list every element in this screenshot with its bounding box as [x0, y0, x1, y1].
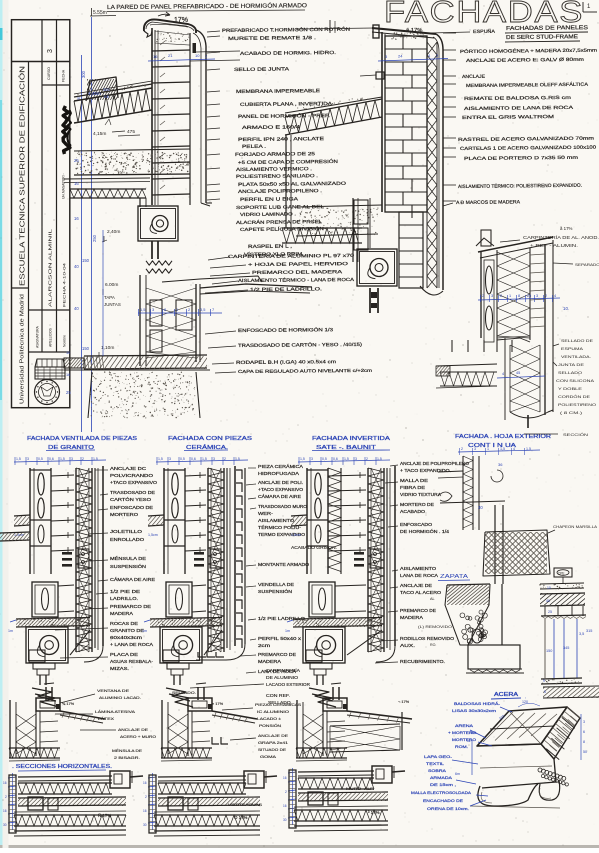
svg-text:SOBRA: SOBRA	[428, 768, 446, 773]
svg-text:3: 3	[536, 294, 538, 298]
svg-text:ANCLAJE POLIPROPILENO .: ANCLAJE POLIPROPILENO .	[238, 188, 322, 194]
svg-text:SELLADO DE: SELLADO DE	[561, 338, 593, 343]
svg-text:SELLADO: SELLADO	[558, 370, 582, 375]
svg-text:25: 25	[66, 390, 71, 395]
svg-text:MALLA ELECTROSOLDADA: MALLA ELECTROSOLDADA	[411, 790, 471, 795]
svg-text:+ REF - ALUMIN.: + REF - ALUMIN.	[530, 243, 578, 248]
svg-text:+5 CM DE CAPA DE COMPRESIÓN: +5 CM DE CAPA DE COMPRESIÓN	[238, 158, 338, 165]
svg-text:SUSPENSIÓN: SUSPENSIÓN	[258, 589, 292, 594]
svg-text:1,5: 1,5	[93, 457, 98, 461]
svg-text:FACHADA . HOJA EXTERIOR: FACHADA . HOJA EXTERIOR	[455, 434, 551, 440]
svg-text:10: 10	[195, 53, 200, 58]
svg-text:ACABADO: ACABADO	[400, 509, 426, 514]
svg-text:LANA DE ROCA: LANA DE ROCA	[400, 573, 438, 578]
svg-text:MÉNSULA DE: MÉNSULA DE	[112, 748, 142, 753]
svg-text:CARPINTERÍA: CARPINTERÍA	[266, 668, 300, 673]
svg-text:VENTILADA.: VENTILADA.	[561, 354, 591, 359]
svg-text:GRAPA 2x41: GRAPA 2x41	[258, 740, 288, 745]
svg-text:CPE: CPE	[558, 572, 565, 576]
svg-text:ENFOSCADO DE HORMIGÓN 1/3: ENFOSCADO DE HORMIGÓN 1/3	[238, 326, 334, 333]
svg-text:ARMADA: ARMADA	[430, 775, 452, 780]
svg-text:Y DOBLE: Y DOBLE	[558, 386, 582, 391]
svg-text:40: 40	[74, 264, 79, 269]
svg-text:+ HOJA DE PAPEL HERVIDO: + HOJA DE PAPEL HERVIDO	[248, 261, 349, 267]
svg-text:2: 2	[366, 457, 368, 461]
svg-text:16: 16	[283, 804, 287, 808]
svg-text:BALDOSAS HIDRÁ-: BALDOSAS HIDRÁ-	[454, 701, 501, 706]
svg-text:ENTRA EL GRIS WALTROM: ENTRA EL GRIS WALTROM	[462, 114, 554, 120]
svg-text:0,6: 0,6	[333, 457, 338, 461]
svg-text:475: 475	[127, 129, 135, 135]
svg-text:DE ALUMINIO: DE ALUMINIO	[266, 675, 299, 680]
svg-text:3: 3	[583, 720, 585, 724]
svg-text:2: 2	[500, 294, 502, 298]
svg-text:16: 16	[153, 54, 158, 59]
svg-text:« 17%: « 17%	[212, 701, 224, 706]
svg-text:FACHADA VENTILADA DE PIEZAS: FACHADA VENTILADA DE PIEZAS	[27, 436, 137, 442]
svg-text:CÁMARA DE AIRE: CÁMARA DE AIRE	[110, 577, 155, 582]
svg-text:25: 25	[527, 294, 531, 298]
svg-text:FORJADO ARMADO DE 25: FORJADO ARMADO DE 25	[235, 151, 316, 157]
svg-text:DE SERC STUD-FRAME: DE SERC STUD-FRAME	[506, 34, 578, 41]
svg-text:DE 15cm ,: DE 15cm ,	[430, 782, 456, 787]
svg-text:30: 30	[478, 505, 483, 510]
svg-text:Ñ 17%: Ñ 17%	[98, 813, 111, 818]
svg-text:MADERA: MADERA	[110, 611, 133, 616]
svg-text:ESCUELA TECNICA SUPERIOR DE ED: ESCUELA TECNICA SUPERIOR DE EDIFICACIÓN	[18, 66, 27, 286]
svg-text:MALLA DE: MALLA DE	[400, 478, 428, 483]
svg-text:CURSO: CURSO	[47, 67, 51, 80]
svg-text:AISLAMIENTO: AISLAMIENTO	[258, 518, 295, 523]
svg-text:PIEZAS CERÁMICAS: PIEZAS CERÁMICAS	[255, 702, 301, 707]
svg-text:ANCLAJE DE: ANCLAJE DE	[118, 727, 149, 732]
svg-text:3: 3	[169, 457, 171, 461]
svg-text:3: 3	[71, 457, 73, 461]
svg-text:ARENA: ARENA	[455, 723, 473, 728]
svg-text:ASIGNATURA: ASIGNATURA	[36, 325, 40, 348]
svg-text:10: 10	[547, 586, 551, 590]
svg-text:25: 25	[548, 610, 552, 614]
svg-text:CARTÓN YESO: CARTÓN YESO	[110, 497, 152, 502]
svg-text:ALARCSON ALMINIL: ALARCSON ALMINIL	[48, 228, 53, 307]
svg-text:6: 6	[583, 730, 585, 734]
svg-text:ROCAS DE: ROCAS DE	[110, 621, 138, 626]
svg-text:4: 4	[502, 372, 504, 376]
svg-text:AISLAMIENTO VERMICO .: AISLAMIENTO VERMICO .	[236, 166, 312, 172]
svg-text:Universidad Politécnica de Mad: Universidad Politécnica de Madrid	[20, 294, 26, 404]
svg-text:9: 9	[543, 679, 545, 683]
svg-text:WER-: WER-	[258, 511, 274, 516]
svg-text:RECUBRIMIENTO.: RECUBRIMIENTO.	[400, 659, 445, 664]
svg-text:AISLAMIENTO: AISLAMIENTO	[400, 566, 437, 571]
svg-text:ANCLAJE DC: ANCLAJE DC	[110, 466, 146, 471]
svg-text:0,5: 0,5	[180, 457, 185, 461]
svg-text:315: 315	[586, 629, 592, 633]
svg-text:A Ð MARCOS DE MADERA: A Ð MARCOS DE MADERA	[456, 199, 521, 206]
svg-text:PREMARCO DE: PREMARCO DE	[258, 652, 296, 657]
svg-text:TRASDOSADO DE CARTÓN - YESO: TRASDOSADO DE CARTÓN - YESO . /40/15)	[238, 341, 363, 348]
svg-text:2: 2	[5, 795, 7, 799]
svg-text:LÁMINA ATESIVA: LÁMINA ATESIVA	[95, 709, 136, 714]
svg-text:PANEL DE HORMIGÓN - PREF.: PANEL DE HORMIGÓN - PREF.	[238, 112, 330, 119]
svg-text:VIERTEAGUAS: VIERTEAGUAS	[228, 803, 263, 807]
svg-text:MURETE DE REMATE 1/8 .: MURETE DE REMATE 1/8 .	[228, 35, 316, 41]
svg-text:Nombre: Nombre	[63, 335, 67, 347]
svg-text:1/2 PIE DE LADRILLO.: 1/2 PIE DE LADRILLO.	[250, 286, 322, 292]
svg-text:ENFOSCADO DE: ENFOSCADO DE	[110, 505, 153, 510]
svg-text:FECHA: FECHA	[62, 69, 66, 82]
svg-text:SECCIÓN: SECCIÓN	[563, 432, 588, 437]
svg-text:VENDELLA DE: VENDELLA DE	[258, 582, 294, 587]
svg-text:250: 250	[92, 234, 97, 242]
svg-text:1,5: 1,5	[140, 307, 145, 312]
svg-text:SELLADO.: SELLADO.	[172, 690, 196, 695]
svg-text:3: 3	[474, 447, 476, 451]
svg-text:5: 5	[544, 690, 546, 694]
svg-text:60x40x3cm: 60x40x3cm	[110, 635, 143, 640]
svg-text:2: 2	[545, 294, 547, 298]
svg-text:1: 1	[176, 307, 178, 312]
svg-text:30: 30	[143, 823, 147, 827]
svg-text:0,6: 0,6	[49, 457, 54, 461]
svg-text:SEPARADOR: SEPARADOR	[575, 263, 599, 267]
svg-text:1,5: 1,5	[377, 457, 382, 461]
svg-text:0,5: 0,5	[38, 457, 43, 461]
svg-text:PERFIL 50x40 x: PERFIL 50x40 x	[258, 636, 302, 641]
svg-text:¬ 17%: ¬ 17%	[398, 699, 410, 704]
svg-text:3: 3	[47, 49, 54, 53]
svg-text:PREMARCO DE: PREMARCO DE	[110, 604, 151, 609]
svg-text:CARPINTERÍA DE AL. ANOD.: CARPINTERÍA DE AL. ANOD.	[523, 235, 599, 240]
svg-text:16: 16	[74, 181, 79, 186]
svg-text:3,5: 3,5	[200, 307, 205, 312]
svg-text:FECHA 4-10-04: FECHA 4-10-04	[62, 262, 67, 307]
svg-text:ESPUMA: ESPUMA	[561, 346, 583, 351]
svg-text:3cm: 3cm	[470, 731, 477, 735]
svg-text:LADRILLO.: LADRILLO.	[110, 596, 138, 601]
svg-text:2cm: 2cm	[258, 643, 271, 648]
svg-text:( 8 CM.): ( 8 CM.)	[560, 410, 583, 415]
svg-text:PELEA .: PELEA .	[242, 144, 266, 149]
svg-text:POLIESTIRENO: POLIESTIRENO	[558, 402, 596, 407]
svg-text:2: 2	[461, 447, 463, 451]
svg-text:RO.: RO.	[430, 643, 436, 647]
svg-text:30: 30	[3, 823, 7, 827]
svg-text:1,5: 1,5	[300, 457, 305, 461]
svg-text:RODAPEL B.H (I.GA) 40 x0.5x4: RODAPEL B.H (I.GA) 40 x0.5x4 cm	[236, 359, 336, 365]
svg-text:3,5: 3,5	[579, 632, 584, 636]
svg-text:4,45m: 4,45m	[88, 91, 101, 96]
svg-text:MADERA: MADERA	[258, 659, 281, 664]
svg-text:2: 2	[224, 457, 226, 461]
svg-text:3: 3	[355, 457, 357, 461]
svg-text:ZAPATA: ZAPATA	[440, 574, 469, 580]
svg-text:LACADO ±: LACADO ±	[257, 716, 282, 721]
svg-text:CHAPEON MARSILLA: CHAPEON MARSILLA	[553, 525, 598, 529]
svg-text:GOMA: GOMA	[260, 754, 277, 759]
svg-text:SITUADO DE: SITUADO DE	[258, 747, 286, 752]
svg-text:ENROLLADO: ENROLLADO	[110, 537, 145, 542]
svg-text:+TACO EXPANSIVO: +TACO EXPANSIVO	[258, 487, 304, 492]
svg-text:320: 320	[103, 87, 110, 92]
svg-text:1,5: 1,5	[202, 457, 207, 461]
svg-text:ACABADO DE HORMIG. HIDRO.: ACABADO DE HORMIG. HIDRO.	[240, 50, 336, 56]
svg-text:3: 3	[152, 307, 154, 312]
svg-text:1: 1	[509, 294, 511, 298]
svg-text:2,40m: 2,40m	[107, 229, 120, 235]
svg-text:1/2 PIE DE: 1/2 PIE DE	[110, 589, 140, 594]
svg-text:PREMARCO DEL MADERA: PREMARCO DEL MADERA	[252, 269, 342, 275]
svg-text:16: 16	[74, 216, 79, 221]
svg-text:ANCLAJE DE: ANCLAJE DE	[400, 583, 432, 588]
svg-text:VENTANA DE: VENTANA DE	[97, 688, 130, 693]
svg-text:40: 40	[546, 599, 550, 603]
svg-text:VIDRIO LAMINADO .: VIDRIO LAMINADO .	[240, 211, 296, 217]
svg-text:3: 3	[491, 294, 493, 298]
svg-text:ANCLAJE DE POLIPROPILENO: ANCLAJE DE POLIPROPILENO	[400, 461, 470, 466]
svg-text:DE: DE	[104, 95, 110, 99]
svg-text:10.: 10.	[563, 306, 569, 311]
svg-text:5.55m: 5.55m	[93, 10, 107, 16]
svg-text:16: 16	[3, 809, 7, 813]
svg-text:6.00m: 6.00m	[105, 282, 118, 288]
svg-text:1,5: 1,5	[526, 447, 531, 451]
svg-text:2: 2	[145, 795, 147, 799]
svg-text:JOLETILLO: JOLETILLO	[110, 529, 143, 534]
svg-text:³ 17%: ³ 17%	[368, 810, 380, 815]
svg-text:300: 300	[81, 70, 86, 78]
svg-text:MADERA: MADERA	[400, 615, 423, 620]
svg-text:8: 8	[583, 740, 585, 744]
svg-text:1m: 1m	[8, 629, 13, 633]
svg-text:1m: 1m	[142, 629, 147, 633]
svg-text:JUNTAS: JUNTAS	[104, 302, 121, 307]
svg-text:150: 150	[546, 649, 552, 653]
svg-text:PLACA DE: PLACA DE	[110, 652, 138, 657]
svg-text:+ LANA DE ROCA: + LANA DE ROCA	[110, 642, 153, 647]
svg-text:10: 10	[66, 351, 70, 355]
svg-text:POLIESTIRENO SANILIADO .: POLIESTIRENO SANILIADO .	[236, 173, 318, 179]
svg-text:CON REF.: CON REF.	[266, 693, 290, 698]
svg-text:SUSPENSIÓN: SUSPENSIÓN	[110, 564, 146, 569]
svg-text:4: 4	[554, 294, 556, 298]
svg-text:HIDROFUGADA: HIDROFUGADA	[258, 471, 299, 476]
svg-text:LACADO EXTERIOR: LACADO EXTERIOR	[266, 682, 310, 687]
svg-text:MÉNSULA DE: MÉNSULA DE	[110, 556, 146, 561]
svg-text:PREMARCO DE: PREMARCO DE	[400, 608, 436, 613]
svg-text:TAPA: TAPA	[104, 295, 115, 300]
svg-text:ANCLAJE DE POLI.: ANCLAJE DE POLI.	[258, 480, 303, 485]
svg-text:MORTERO: MORTERO	[452, 737, 476, 742]
svg-text:AL: AL	[430, 597, 435, 601]
svg-text:1,5: 1,5	[344, 457, 349, 461]
svg-text:8: 8	[164, 307, 166, 312]
svg-text:8: 8	[518, 294, 520, 298]
svg-text:1,5: 1,5	[500, 447, 505, 451]
svg-text:ORENA DE 10cm.: ORENA DE 10cm.	[427, 806, 469, 811]
svg-text:ALUMINIO LACAD.: ALUMINIO LACAD.	[99, 695, 141, 700]
svg-text:ANCLAJE DE: ANCLAJE DE	[258, 733, 289, 738]
svg-text:PERFIL IPN 240 , ANCLATE: PERFIL IPN 240 , ANCLATE	[238, 136, 324, 142]
svg-text:ã 17%: ã 17%	[560, 226, 573, 231]
svg-text:FACHADA INVERTIDA: FACHADA INVERTIDA	[312, 436, 390, 442]
svg-text:3: 3	[27, 457, 29, 461]
svg-text:MORTERO: MORTERO	[110, 512, 139, 517]
svg-text:TACO AL ACERO: TACO AL ACERO	[400, 590, 442, 595]
svg-text:16: 16	[143, 781, 147, 785]
svg-text:ROM.: ROM.	[455, 744, 468, 749]
svg-text:Ö 17%: Ö 17%	[234, 815, 248, 820]
svg-text:CORDÓN DE: CORDÓN DE	[558, 394, 590, 399]
svg-text:ENCACHADO DE: ENCACHADO DE	[423, 798, 463, 803]
svg-text:ENFOSCADO: ENFOSCADO	[400, 522, 433, 527]
svg-text:GRANITO DE: GRANITO DE	[110, 628, 144, 633]
svg-text:16: 16	[66, 373, 70, 377]
svg-text:DE HORMIGÓN . 1/4: DE HORMIGÓN . 1/4	[400, 529, 450, 534]
svg-text:SELLO DE JUNTA: SELLO DE JUNTA	[234, 66, 290, 72]
svg-text:1,5cm: 1,5cm	[148, 533, 158, 537]
svg-text:ANCLAJE: ANCLAJE	[462, 74, 485, 79]
svg-text:1,5cm: 1,5cm	[291, 533, 301, 537]
svg-text:FACHADAS: FACHADAS	[384, 0, 584, 29]
svg-text:0,6: 0,6	[191, 457, 196, 461]
svg-text:,: ,	[525, 694, 526, 699]
svg-text:RODILLOS REMOVIDO: RODILLOS REMOVIDO	[400, 636, 455, 641]
svg-text:CÁMARA DE AIRE: CÁMARA DE AIRE	[258, 494, 301, 499]
svg-text:150: 150	[82, 258, 90, 263]
svg-text:1,5: 1,5	[16, 457, 21, 461]
svg-text:45: 45	[516, 371, 520, 375]
svg-text:7: 7	[212, 307, 214, 312]
svg-text:2: 2	[82, 457, 84, 461]
svg-text:TRASDOSADO MURO: TRASDOSADO MURO	[258, 504, 308, 509]
svg-text:4,15m: 4,15m	[93, 131, 106, 137]
svg-text:TRASDOSADO DE: TRASDOSADO DE	[110, 490, 155, 495]
svg-text:1: 1	[487, 447, 489, 451]
svg-text:+TACO EXPANSIVO: +TACO EXPANSIVO	[110, 480, 158, 485]
svg-text:UH.MASAPURI -: UH.MASAPURI -	[62, 173, 66, 199]
svg-text:TEXTIL: TEXTIL	[426, 761, 445, 766]
svg-text:FIBRA DE: FIBRA DE	[400, 485, 425, 490]
svg-text:MORTERO DE: MORTERO DE	[400, 502, 434, 507]
svg-text:LISAS 30x30x2cm: LISAS 30x30x2cm	[452, 708, 497, 713]
svg-text:VIDRIO TEXTURA: VIDRIO TEXTURA	[400, 492, 441, 497]
svg-text:MEMBRANA IMPERMEABLE: MEMBRANA IMPERMEABLE	[236, 88, 320, 94]
svg-text:36: 36	[498, 462, 503, 467]
svg-text:2: 2	[482, 294, 484, 298]
svg-text:4: 4	[513, 447, 515, 451]
svg-text:PERFIL EN U BIGA: PERFIL EN U BIGA	[240, 196, 299, 202]
svg-text:2: 2	[285, 790, 287, 794]
svg-text:PONSIÓN: PONSIÓN	[259, 723, 281, 728]
svg-text:1m: 1m	[285, 629, 290, 633]
svg-text:345: 345	[563, 646, 569, 650]
svg-text:16: 16	[283, 776, 287, 780]
svg-text:ACERO + MURO: ACERO + MURO	[120, 734, 156, 739]
svg-text:16: 16	[143, 809, 147, 813]
svg-text:ACERA: ACERA	[494, 692, 519, 698]
svg-text:IC ALUMINIO: IC ALUMINIO	[257, 709, 289, 714]
svg-text:LAPA GEO-: LAPA GEO-	[424, 754, 453, 759]
svg-text:PIEZA CERÁMICA: PIEZA CERÁMICA	[258, 464, 303, 469]
svg-text:JUNTA DE: JUNTA DE	[558, 362, 584, 367]
svg-text:2 BISAGR.: 2 BISAGR.	[114, 755, 140, 760]
svg-text:1,5: 1,5	[60, 457, 65, 461]
svg-text:0,5: 0,5	[322, 457, 327, 461]
svg-text:40: 40	[74, 306, 79, 311]
svg-text:FACHADA CON PIEZAS: FACHADA CON PIEZAS	[168, 436, 252, 442]
svg-text:1,5: 1,5	[158, 457, 163, 461]
svg-text:ACABADO GRISON.: ACABADO GRISON.	[291, 545, 337, 550]
svg-text:CARPINTERÍA DE ALUMINIO PL 97: CARPINTERÍA DE ALUMINIO PL 97 x70	[228, 252, 355, 259]
svg-text:3: 3	[213, 457, 215, 461]
svg-text:12: 12	[467, 739, 471, 743]
svg-text:CON SILICONA: CON SILICONA	[556, 378, 594, 383]
svg-text:. SECCIONES HORIZONTALES.: . SECCIONES HORIZONTALES.	[12, 764, 112, 770]
svg-text:AUX.: AUX.	[400, 643, 415, 648]
svg-text:AISLAMIENTO TÉRMICO - LANA DE: AISLAMIENTO TÉRMICO - LANA DE ROCA	[238, 276, 354, 283]
svg-text:2: 2	[188, 307, 190, 312]
svg-text:3: 3	[311, 457, 313, 461]
svg-text:25: 25	[74, 158, 79, 163]
svg-text:MURO- ALF.: MURO- ALF.	[346, 787, 374, 791]
svg-text:RASPEL EN L ,: RASPEL EN L ,	[248, 244, 292, 249]
svg-text:16: 16	[3, 781, 7, 785]
svg-text:30: 30	[283, 818, 287, 822]
svg-text:150: 150	[82, 346, 90, 351]
svg-text:LÁTEX: LÁTEX	[98, 716, 115, 721]
svg-text:6m: 6m	[455, 772, 460, 776]
svg-text:MONTANTE ARMADO: MONTANTE ARMADO	[258, 562, 310, 567]
svg-text:APELLIDOS: APELLIDOS	[49, 327, 53, 347]
svg-text:(L) REMOVIDO: (L) REMOVIDO	[418, 625, 452, 629]
svg-text:MIZAS.: MIZAS.	[110, 666, 129, 671]
svg-text:AGUAS RESBALA-: AGUAS RESBALA-	[110, 659, 154, 664]
